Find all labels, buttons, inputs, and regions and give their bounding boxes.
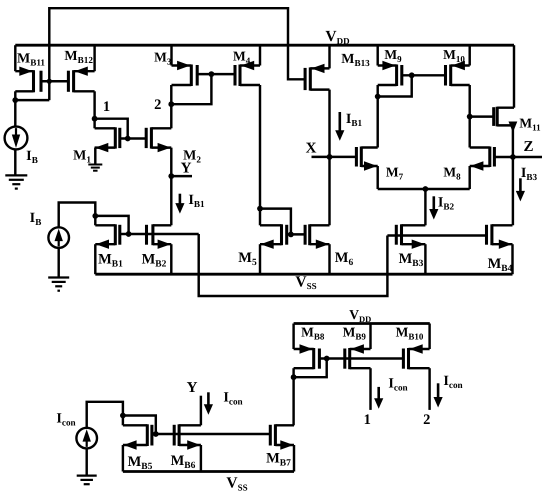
wire tail M7-M8 bbox=[378, 188, 470, 190]
wire M10 drain to M11 gate bbox=[470, 115, 494, 117]
wire M9 drain down bbox=[376, 85, 378, 97]
node MB11-MB12 gate junction bbox=[47, 79, 52, 84]
wire MB1 drain down bbox=[94, 216, 96, 225]
wire MB8 drain down bbox=[292, 368, 294, 377]
node X junction bbox=[327, 154, 333, 160]
wire MB8 diode link bbox=[294, 359, 327, 378]
svg-text:Z: Z bbox=[523, 139, 533, 155]
current source IB top-left bbox=[5, 127, 28, 150]
transistor MB13 bbox=[305, 64, 329, 91]
svg-text:2: 2 bbox=[423, 412, 430, 428]
wire MB11 source from rail bbox=[14, 45, 16, 71]
transistor MB8 bbox=[294, 344, 320, 369]
wire M3 drain / node 2 / M2 drain column bbox=[170, 85, 172, 128]
node MB8 drain junction bbox=[291, 374, 297, 380]
wire MB12 drain to node 1 bbox=[93, 91, 95, 118]
wire MB6 source to rail bbox=[200, 445, 202, 472]
wire M1-M2 gate wire bbox=[120, 137, 146, 139]
wire M5-M6 gate wire bbox=[287, 233, 305, 235]
wire M11 source down to Z bbox=[512, 125, 514, 157]
transistor M3 bbox=[172, 61, 198, 86]
node Y junction bbox=[168, 173, 174, 179]
wire Z to MB4 drain bbox=[512, 157, 514, 225]
transistor M11 bbox=[494, 107, 514, 127]
wire VDD2 rail bbox=[294, 322, 430, 325]
node Z junction bbox=[510, 154, 516, 160]
svg-text:Y: Y bbox=[181, 161, 192, 177]
wire gates to node 2 bbox=[171, 74, 211, 104]
wire M4 drain to M5 bbox=[259, 85, 261, 209]
wire MB4 source to rail bbox=[511, 244, 513, 274]
transistor M5 bbox=[260, 224, 287, 249]
current arrow IB1 at X bbox=[335, 112, 344, 141]
wire VSS2 rail bbox=[123, 470, 294, 473]
wire IB to ground bbox=[57, 248, 59, 278]
transistor M7 bbox=[356, 147, 377, 171]
wire MB5-MB6-MB7 gate bus bbox=[152, 433, 270, 435]
wire MB5 source to rail bbox=[122, 445, 124, 472]
wire MB11 drain to gates riser bbox=[15, 99, 49, 101]
node MB11 drain junction bbox=[12, 97, 18, 103]
transistor MB4 bbox=[487, 224, 513, 249]
wire MB13 drain to node X bbox=[328, 90, 330, 157]
svg-text:Y: Y bbox=[187, 380, 198, 396]
current source Icon bbox=[76, 428, 97, 449]
wire M10 drain down bbox=[468, 85, 470, 117]
wire M4 source from rail bbox=[259, 45, 261, 65]
wire node Z line bbox=[494, 156, 542, 158]
node tail junction bbox=[423, 186, 429, 192]
wire M9-M10 gate wire bbox=[402, 74, 446, 76]
node MB5-MB6 gate junction bbox=[153, 431, 159, 437]
node M9-M10 gate junction bbox=[409, 72, 415, 78]
wire IB to MB1 drain bbox=[59, 203, 96, 228]
current arrow Icon at 2 bbox=[434, 383, 443, 407]
ground Icon bbox=[77, 476, 97, 485]
wire MB3 source to rail bbox=[424, 244, 426, 274]
node M5-M6 gate junction bbox=[288, 232, 294, 238]
wire M3-M4 gate wire bbox=[197, 73, 235, 75]
wire MB10 drain to output 2 bbox=[428, 368, 430, 410]
wire top gate link MB11/MB12 gates to MB13 gate bbox=[49, 8, 306, 100]
wire MB1 diode link bbox=[95, 216, 128, 234]
wire M9 diode link bbox=[378, 75, 412, 96]
wire M7 source to tail bbox=[376, 166, 378, 189]
wire M10 source from rail bbox=[468, 45, 470, 65]
node M4-M5 junction bbox=[257, 206, 263, 212]
wire MB5 diode link bbox=[123, 416, 156, 435]
node 1 junction bbox=[92, 116, 98, 122]
current source IB mid-left bbox=[48, 227, 69, 248]
wire M8 source to tail bbox=[468, 166, 470, 189]
wire MB5 drain down bbox=[122, 416, 124, 426]
node M10 drain junction bbox=[467, 114, 473, 120]
wire MB7 source to rail bbox=[293, 445, 295, 472]
wire MB11-MB12 gate wire bbox=[41, 80, 68, 82]
wire M3 source from rail bbox=[170, 45, 172, 65]
wire M9 source from rail bbox=[376, 45, 378, 65]
transistor MB2 bbox=[147, 224, 172, 249]
transistor MB3 bbox=[396, 224, 425, 249]
node MB1 drain junction bbox=[92, 213, 98, 219]
wire M5 diode link bbox=[260, 209, 291, 235]
current arrow IB1 at Y bbox=[175, 194, 184, 214]
current arrow Icon at Y bbox=[204, 392, 213, 415]
node MB5 drain junction bbox=[120, 413, 126, 419]
wire VDD rail bbox=[15, 44, 514, 47]
transistor MB5 bbox=[123, 424, 152, 449]
wire M7 drain up bbox=[376, 97, 378, 148]
wire MB12 source from rail bbox=[93, 45, 95, 71]
wire MB13 source from rail bbox=[328, 45, 330, 68]
wire M11 drain to rail bbox=[513, 45, 515, 107]
wire MB10 source from rail bbox=[428, 324, 430, 350]
wire M1 source to ground bbox=[94, 148, 96, 165]
wire MB2 source to rail bbox=[170, 244, 172, 274]
node M3-M4 gate junction bbox=[209, 71, 215, 77]
wire MB1 source to rail bbox=[94, 244, 96, 274]
wire bias gate bus MB1-MB2 to MB3-MB4 bbox=[120, 234, 487, 296]
wire tail to MB3 drain bbox=[424, 189, 426, 225]
node MB8 gate junction bbox=[324, 356, 330, 362]
transistor M1 bbox=[95, 127, 120, 152]
node M1-M2 gate junction bbox=[125, 136, 131, 142]
wire MB9 source from rail bbox=[369, 324, 371, 350]
transistor MB12 bbox=[68, 67, 94, 93]
wire M6 source to rail bbox=[328, 244, 330, 274]
wire MB8 drain to MB7 drain bbox=[292, 377, 294, 425]
current arrow IB3 bbox=[516, 178, 525, 201]
wire MB11 drain down bbox=[14, 91, 16, 100]
node 2 junction bbox=[168, 101, 174, 107]
wire Icon to ground bbox=[85, 448, 87, 475]
transistor MB10 bbox=[403, 344, 429, 369]
wire Y stub bbox=[171, 175, 192, 177]
transistor M8 bbox=[470, 147, 495, 171]
ground M1 source bbox=[88, 165, 102, 171]
wire M2 source to Y to MB2 drain bbox=[170, 148, 172, 226]
wire M6 drain to node X bbox=[328, 157, 330, 225]
transistor MB7 bbox=[270, 424, 294, 449]
wire IB to MB11 drain bbox=[14, 100, 16, 175]
transistor MB11 bbox=[15, 67, 41, 93]
wire MB6 drain to Y bbox=[200, 396, 202, 426]
wire M5 source to rail bbox=[259, 244, 261, 274]
wire Icon to MB5 drain bbox=[87, 402, 123, 428]
wire M8 drain up bbox=[468, 117, 470, 148]
wire M4 drain to M5 drain bbox=[259, 209, 261, 226]
node MB1-MB2 gate junction bbox=[126, 231, 132, 237]
ground IB top-left bbox=[5, 175, 27, 188]
node M9 drain junction bbox=[375, 94, 381, 100]
svg-text:1: 1 bbox=[103, 99, 110, 115]
arrow M11 source bbox=[509, 122, 518, 133]
wire VSS rail bbox=[95, 273, 512, 276]
current arrow IB2 bbox=[429, 196, 438, 219]
transistor M10 bbox=[446, 61, 470, 86]
transistor M9 bbox=[378, 61, 402, 86]
svg-text:X: X bbox=[306, 141, 317, 157]
ground IB mid-left bbox=[48, 278, 69, 291]
transistor M2 bbox=[146, 127, 171, 152]
wire MB9 drain to output 1 bbox=[369, 368, 371, 410]
current arrow Icon at 1 bbox=[374, 387, 383, 409]
transistor MB6 bbox=[174, 424, 201, 449]
transistor MB9 bbox=[345, 344, 371, 369]
wire node X line bbox=[312, 156, 357, 158]
wire node 1 to M1/M2 gates bbox=[95, 119, 128, 139]
transistor M6 bbox=[305, 224, 329, 249]
wire node 1 to M1 drain bbox=[93, 119, 95, 129]
wire MB8 source from rail bbox=[292, 324, 294, 350]
transistor MB1 bbox=[95, 224, 120, 249]
svg-text:2: 2 bbox=[154, 97, 161, 113]
wire MB8-MB9-MB10 gate bus bbox=[319, 357, 403, 359]
transistor M4 bbox=[235, 61, 260, 86]
svg-text:1: 1 bbox=[364, 412, 371, 428]
